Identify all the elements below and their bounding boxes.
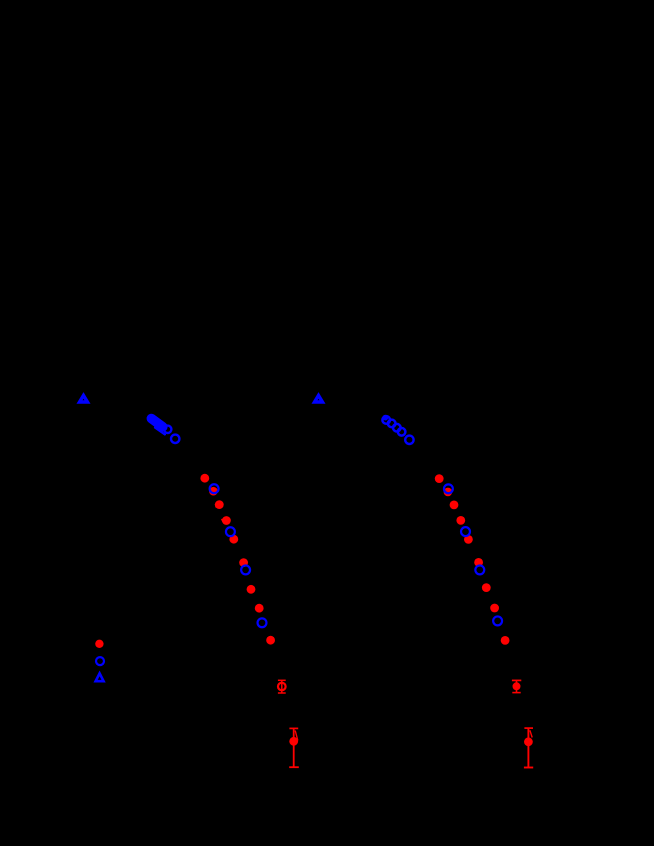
left panel: open triangle marker (lowest pT point) [80,395,88,402]
right panel: open triangle marker (lowest pT point) [315,395,323,402]
right panel: bottom red point with long error bar [524,728,533,768]
left panel: red filled circle series with interleaved blue open circles [200,474,275,645]
legend: red filled circle [95,640,103,648]
right panel: red filled circle series with interleaved blue open circles [435,474,510,645]
left panel: bottom red point with long error bar [289,728,299,767]
legend: blue open triangle [96,673,104,681]
left panel: red open circle with short error bar [278,680,286,693]
right panel: cluster of overlapping blue open circles (low-pT) [382,415,413,444]
legend: blue open circle [96,657,104,665]
right panel: red filled circle with short error bar [512,680,521,692]
left panel: merged cluster of overlapping blue open circles (low-pT streak) [151,419,179,443]
